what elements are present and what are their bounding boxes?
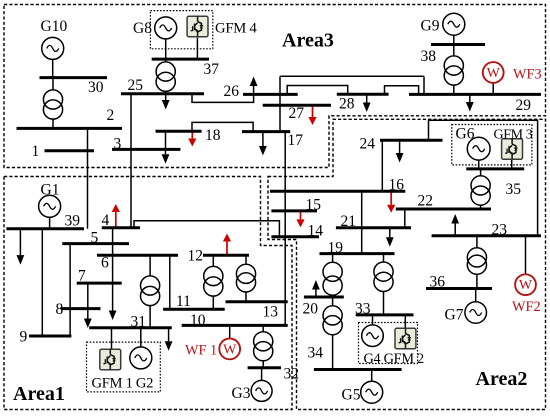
bus 15 — [271, 209, 317, 212]
bus 28 — [337, 93, 389, 96]
load arrow line4-7 below bus7 — [109, 228, 117, 320]
injection arrow up at bus20 — [312, 280, 320, 297]
bus 21 — [336, 226, 411, 229]
transformer 37-25 — [156, 59, 175, 94]
transformer 19-20 — [323, 254, 342, 297]
wire bus25 to bus4 via bus3 — [130, 94, 132, 228]
generator G3 — [251, 380, 272, 401]
GFM 2 converter icon — [395, 328, 416, 348]
transformer 30-2 — [43, 78, 62, 129]
bus 37 — [152, 58, 209, 61]
svg-text:13: 13 — [263, 304, 279, 321]
svg-text:27: 27 — [289, 105, 305, 122]
wind farm WF1 lead — [229, 325, 231, 338]
svg-text:24: 24 — [360, 136, 376, 153]
svg-text:15: 15 — [306, 197, 322, 214]
load arrow line18-3 below bus3 — [162, 131, 170, 164]
transformer 6-31 — [141, 255, 160, 328]
generator G3 lead — [261, 368, 263, 381]
wire line 18-17 — [192, 122, 253, 131]
bus 8 — [61, 307, 101, 310]
red arrow up at bus12 — [223, 234, 231, 256]
bus 1 — [45, 149, 95, 152]
generator G8 — [155, 17, 177, 39]
wire bus5 to bus9 via bus8 — [69, 244, 71, 336]
generator G9 lead — [453, 35, 455, 44]
bus 16 — [270, 190, 405, 193]
svg-text:3: 3 — [114, 136, 122, 153]
svg-text:16: 16 — [389, 177, 405, 194]
generator G6 lead — [478, 160, 480, 169]
svg-text:19: 19 — [328, 240, 344, 257]
svg-text:11: 11 — [176, 293, 191, 310]
bus 5 — [62, 242, 129, 245]
svg-text:36: 36 — [430, 274, 446, 291]
GFM 3 converter icon — [502, 139, 523, 159]
GFM3/G6 plant dotted box — [452, 125, 532, 165]
GFM 1 converter lead — [111, 328, 113, 349]
GFM 3 converter lead — [511, 159, 513, 169]
wire bus2 to bus39 via bus1 — [87, 128, 89, 228]
svg-text:GFM 1 G2: GFM 1 G2 — [92, 376, 154, 392]
svg-text:14: 14 — [308, 223, 324, 240]
svg-text:17: 17 — [288, 132, 304, 149]
generator G4 — [362, 325, 384, 347]
wind farm WF2 lead — [525, 236, 527, 274]
load arrow bus31 — [165, 328, 173, 351]
svg-text:8: 8 — [56, 301, 64, 318]
transformer 12-11 — [204, 255, 223, 309]
GFM 1 converter icon — [100, 349, 121, 369]
wire bus39 to bus9 — [41, 229, 43, 336]
wire line 24-23 — [429, 120, 538, 236]
svg-text:9: 9 — [20, 329, 28, 346]
load arrow bus39 — [17, 229, 25, 265]
bus 4 — [102, 226, 140, 229]
svg-text:G5: G5 — [342, 387, 361, 404]
svg-text:Area3: Area3 — [282, 30, 334, 52]
generator G5 lead — [371, 370, 373, 382]
bus 7 — [77, 282, 122, 285]
bus 27 — [263, 104, 331, 107]
bus 39 — [6, 227, 84, 230]
generator G7 — [465, 302, 487, 324]
svg-text:26: 26 — [224, 83, 240, 100]
red arrow down at bus16 — [387, 191, 395, 213]
svg-text:30: 30 — [88, 79, 104, 96]
svg-text:10: 10 — [190, 312, 206, 329]
GFM2/G4 plant dotted box — [359, 323, 418, 364]
svg-text:WF2: WF2 — [512, 299, 541, 315]
bus 22 — [396, 208, 491, 211]
transformer 10-32 — [254, 325, 273, 367]
wind farm WF3 circle — [483, 62, 504, 83]
wire line 26-28 — [287, 86, 348, 95]
generator G2 lead — [140, 328, 142, 347]
svg-text:G1: G1 — [41, 182, 60, 199]
load arrow bus24 — [396, 140, 404, 162]
bus 36 — [426, 287, 492, 290]
svg-text:23: 23 — [492, 222, 508, 239]
load arrow bus17 — [259, 132, 267, 156]
svg-text:29: 29 — [516, 97, 532, 114]
wind farm WF3 lead — [492, 83, 494, 94]
load arrow line7-8 below bus8 — [84, 283, 92, 328]
bus 6 — [97, 254, 178, 257]
generator G9 — [443, 13, 465, 35]
wire bus17 to bus10 via buses 16,15,14,13 — [284, 132, 286, 326]
svg-text:6: 6 — [101, 255, 109, 272]
svg-text:28: 28 — [339, 96, 355, 113]
red arrow down at bus27 — [308, 105, 316, 125]
transformer 20-34 — [323, 297, 342, 370]
svg-text:31: 31 — [131, 314, 147, 331]
bus 18 — [156, 130, 202, 133]
svg-text:WF 1: WF 1 — [185, 343, 217, 359]
bus 12 — [203, 254, 249, 257]
svg-text:G8: G8 — [133, 20, 152, 37]
red arrow down at bus18 — [188, 131, 196, 146]
transformer 19-33 — [374, 254, 393, 315]
svg-text:37: 37 — [204, 61, 220, 78]
svg-text:W: W — [487, 66, 501, 81]
generator G1 lead — [49, 217, 51, 228]
bus 3 — [112, 148, 180, 151]
bus 31 — [89, 326, 172, 329]
svg-text:35: 35 — [506, 181, 522, 198]
transformer 23-36 — [467, 236, 486, 289]
bus 24 — [380, 139, 443, 142]
generator G1 — [39, 195, 61, 217]
generator G2 — [130, 347, 152, 369]
bus 35 — [466, 167, 524, 170]
Area3 dashed border — [4, 5, 546, 168]
svg-text:G10: G10 — [41, 18, 68, 35]
svg-text:G6: G6 — [456, 126, 475, 143]
wire line 25-26 — [192, 94, 254, 103]
bus 9 — [29, 335, 71, 338]
GFM 2 converter lead — [404, 315, 406, 328]
svg-text:7: 7 — [78, 268, 86, 285]
svg-text:1: 1 — [32, 143, 40, 160]
svg-text:GFM 3: GFM 3 — [494, 128, 533, 143]
wire line 28-29 — [385, 86, 419, 95]
svg-text:12: 12 — [188, 248, 204, 265]
generator G7 lead — [475, 289, 477, 302]
wire bus6 to bus11 — [169, 255, 171, 309]
load arrow bus21 — [386, 228, 394, 247]
load arrow bus29 — [466, 94, 474, 111]
bus 23 — [432, 234, 541, 237]
svg-text:Area1: Area1 — [13, 383, 65, 405]
bus 14 — [271, 235, 319, 238]
wire line 16-19 via bus21 — [361, 191, 363, 253]
injection arrow up at bus26 — [250, 77, 258, 95]
wire line 4-14 — [134, 221, 279, 237]
bus 30 — [40, 76, 108, 79]
GFM1/G2 plant dotted box — [87, 342, 161, 392]
generator G10 lead — [52, 59, 54, 77]
bus 26 — [243, 93, 298, 96]
bus 34 — [314, 368, 402, 371]
wire tie line 26-29 horizontal — [280, 75, 424, 77]
wind farm WF2 circle — [515, 274, 536, 295]
wire line 24-16 — [381, 140, 383, 191]
bus 20 — [304, 296, 344, 299]
generator G10 — [42, 37, 64, 59]
injection arrow up at bus23 — [451, 214, 459, 236]
svg-text:G3: G3 — [232, 385, 251, 402]
transformer 35-22 — [471, 169, 490, 209]
svg-text:G7: G7 — [445, 307, 464, 324]
wire tie line drop to bus29 — [423, 76, 425, 94]
svg-text:GFM 4: GFM 4 — [215, 21, 257, 37]
svg-text:18: 18 — [205, 127, 221, 144]
bus 38 — [431, 43, 485, 46]
transformer 12-13 — [236, 255, 255, 302]
wind farm WF1 circle — [219, 339, 240, 360]
bus 11 — [163, 308, 225, 311]
svg-text:4: 4 — [102, 212, 110, 229]
wire line 22-21 — [404, 209, 406, 228]
red arrow up at bus4 — [112, 204, 120, 228]
bus 17 — [242, 130, 290, 133]
svg-text:22: 22 — [418, 193, 434, 210]
svg-text:39: 39 — [65, 213, 81, 230]
load arrow below bus25 — [162, 94, 170, 110]
svg-text:21: 21 — [341, 213, 357, 230]
GFM 4 converter icon — [187, 16, 208, 36]
svg-text:2: 2 — [107, 107, 115, 124]
bus 13 — [226, 300, 288, 303]
svg-text:W: W — [223, 342, 237, 357]
transformer 38-29 — [444, 45, 463, 95]
svg-text:5: 5 — [91, 230, 99, 247]
bus 2 — [17, 127, 123, 130]
Area1 dashed border — [4, 177, 292, 410]
svg-text:38: 38 — [421, 48, 437, 65]
bus 19 — [320, 252, 395, 255]
red arrow down at bus15 — [296, 211, 304, 228]
bus 25 — [121, 92, 204, 95]
svg-text:G4 GFM 2: G4 GFM 2 — [364, 351, 425, 367]
GFM4/G8 plant dotted box — [150, 11, 212, 49]
generator G4 lead — [372, 315, 374, 325]
bus 33 — [356, 313, 414, 316]
GFM 4 converter lead — [196, 38, 198, 59]
svg-text:G9: G9 — [421, 18, 440, 35]
svg-text:25: 25 — [128, 77, 144, 94]
load arrow bus28 — [363, 94, 371, 112]
svg-text:34: 34 — [308, 345, 324, 362]
bus 32 — [248, 366, 281, 369]
generator G5 — [361, 381, 383, 403]
bus 10 — [182, 324, 288, 327]
svg-text:20: 20 — [303, 301, 319, 318]
Area2 dashed border — [268, 119, 546, 409]
wire tie vertical bus17-27-26 to line 26-29 — [279, 76, 281, 131]
svg-text:W: W — [519, 278, 533, 293]
bus 29 — [409, 93, 541, 96]
svg-text:WF3: WF3 — [513, 67, 542, 83]
svg-text:32: 32 — [284, 366, 300, 383]
svg-text:33: 33 — [355, 301, 371, 318]
generator G8 lead — [165, 39, 167, 59]
generator G6 — [467, 137, 490, 160]
svg-text:Area2: Area2 — [476, 368, 528, 390]
